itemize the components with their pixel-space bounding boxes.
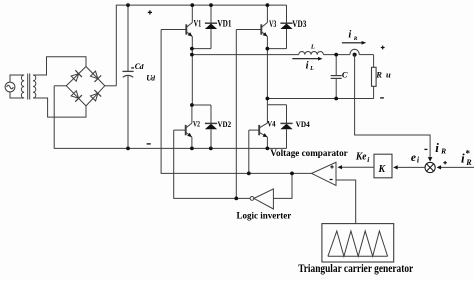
svg-text:L: L: [309, 66, 314, 72]
svg-text:i: i: [435, 140, 439, 155]
svg-text:R: R: [440, 147, 446, 156]
svg-text:d: d: [151, 74, 155, 83]
svg-text:i: i: [461, 150, 465, 165]
svg-text:Triangular carrier generator: Triangular carrier generator: [298, 261, 414, 275]
svg-text:C: C: [342, 69, 348, 79]
svg-text:R: R: [353, 36, 358, 42]
svg-text:*: *: [466, 149, 471, 159]
svg-text:d: d: [140, 62, 144, 71]
svg-text:V1: V1: [194, 19, 202, 29]
svg-text:e: e: [411, 152, 416, 164]
svg-text:V2: V2: [193, 119, 200, 129]
svg-text:i: i: [348, 29, 351, 40]
svg-text:Logic inverter: Logic inverter: [237, 211, 292, 221]
svg-text:VD1: VD1: [217, 19, 232, 29]
svg-text:Voltage comparator: Voltage comparator: [270, 148, 347, 158]
svg-text:Ke: Ke: [355, 151, 367, 162]
svg-text:VD3: VD3: [292, 19, 307, 29]
svg-text:L: L: [310, 43, 315, 50]
svg-text:V3: V3: [269, 19, 277, 29]
svg-text:VD4: VD4: [296, 119, 311, 129]
svg-text:i: i: [306, 60, 309, 71]
svg-text:u: u: [386, 70, 391, 80]
svg-text:K: K: [378, 163, 386, 175]
svg-text:VD2: VD2: [218, 119, 232, 129]
svg-text:V4: V4: [267, 119, 276, 129]
svg-text:R: R: [375, 70, 382, 80]
svg-text:R: R: [465, 158, 472, 167]
